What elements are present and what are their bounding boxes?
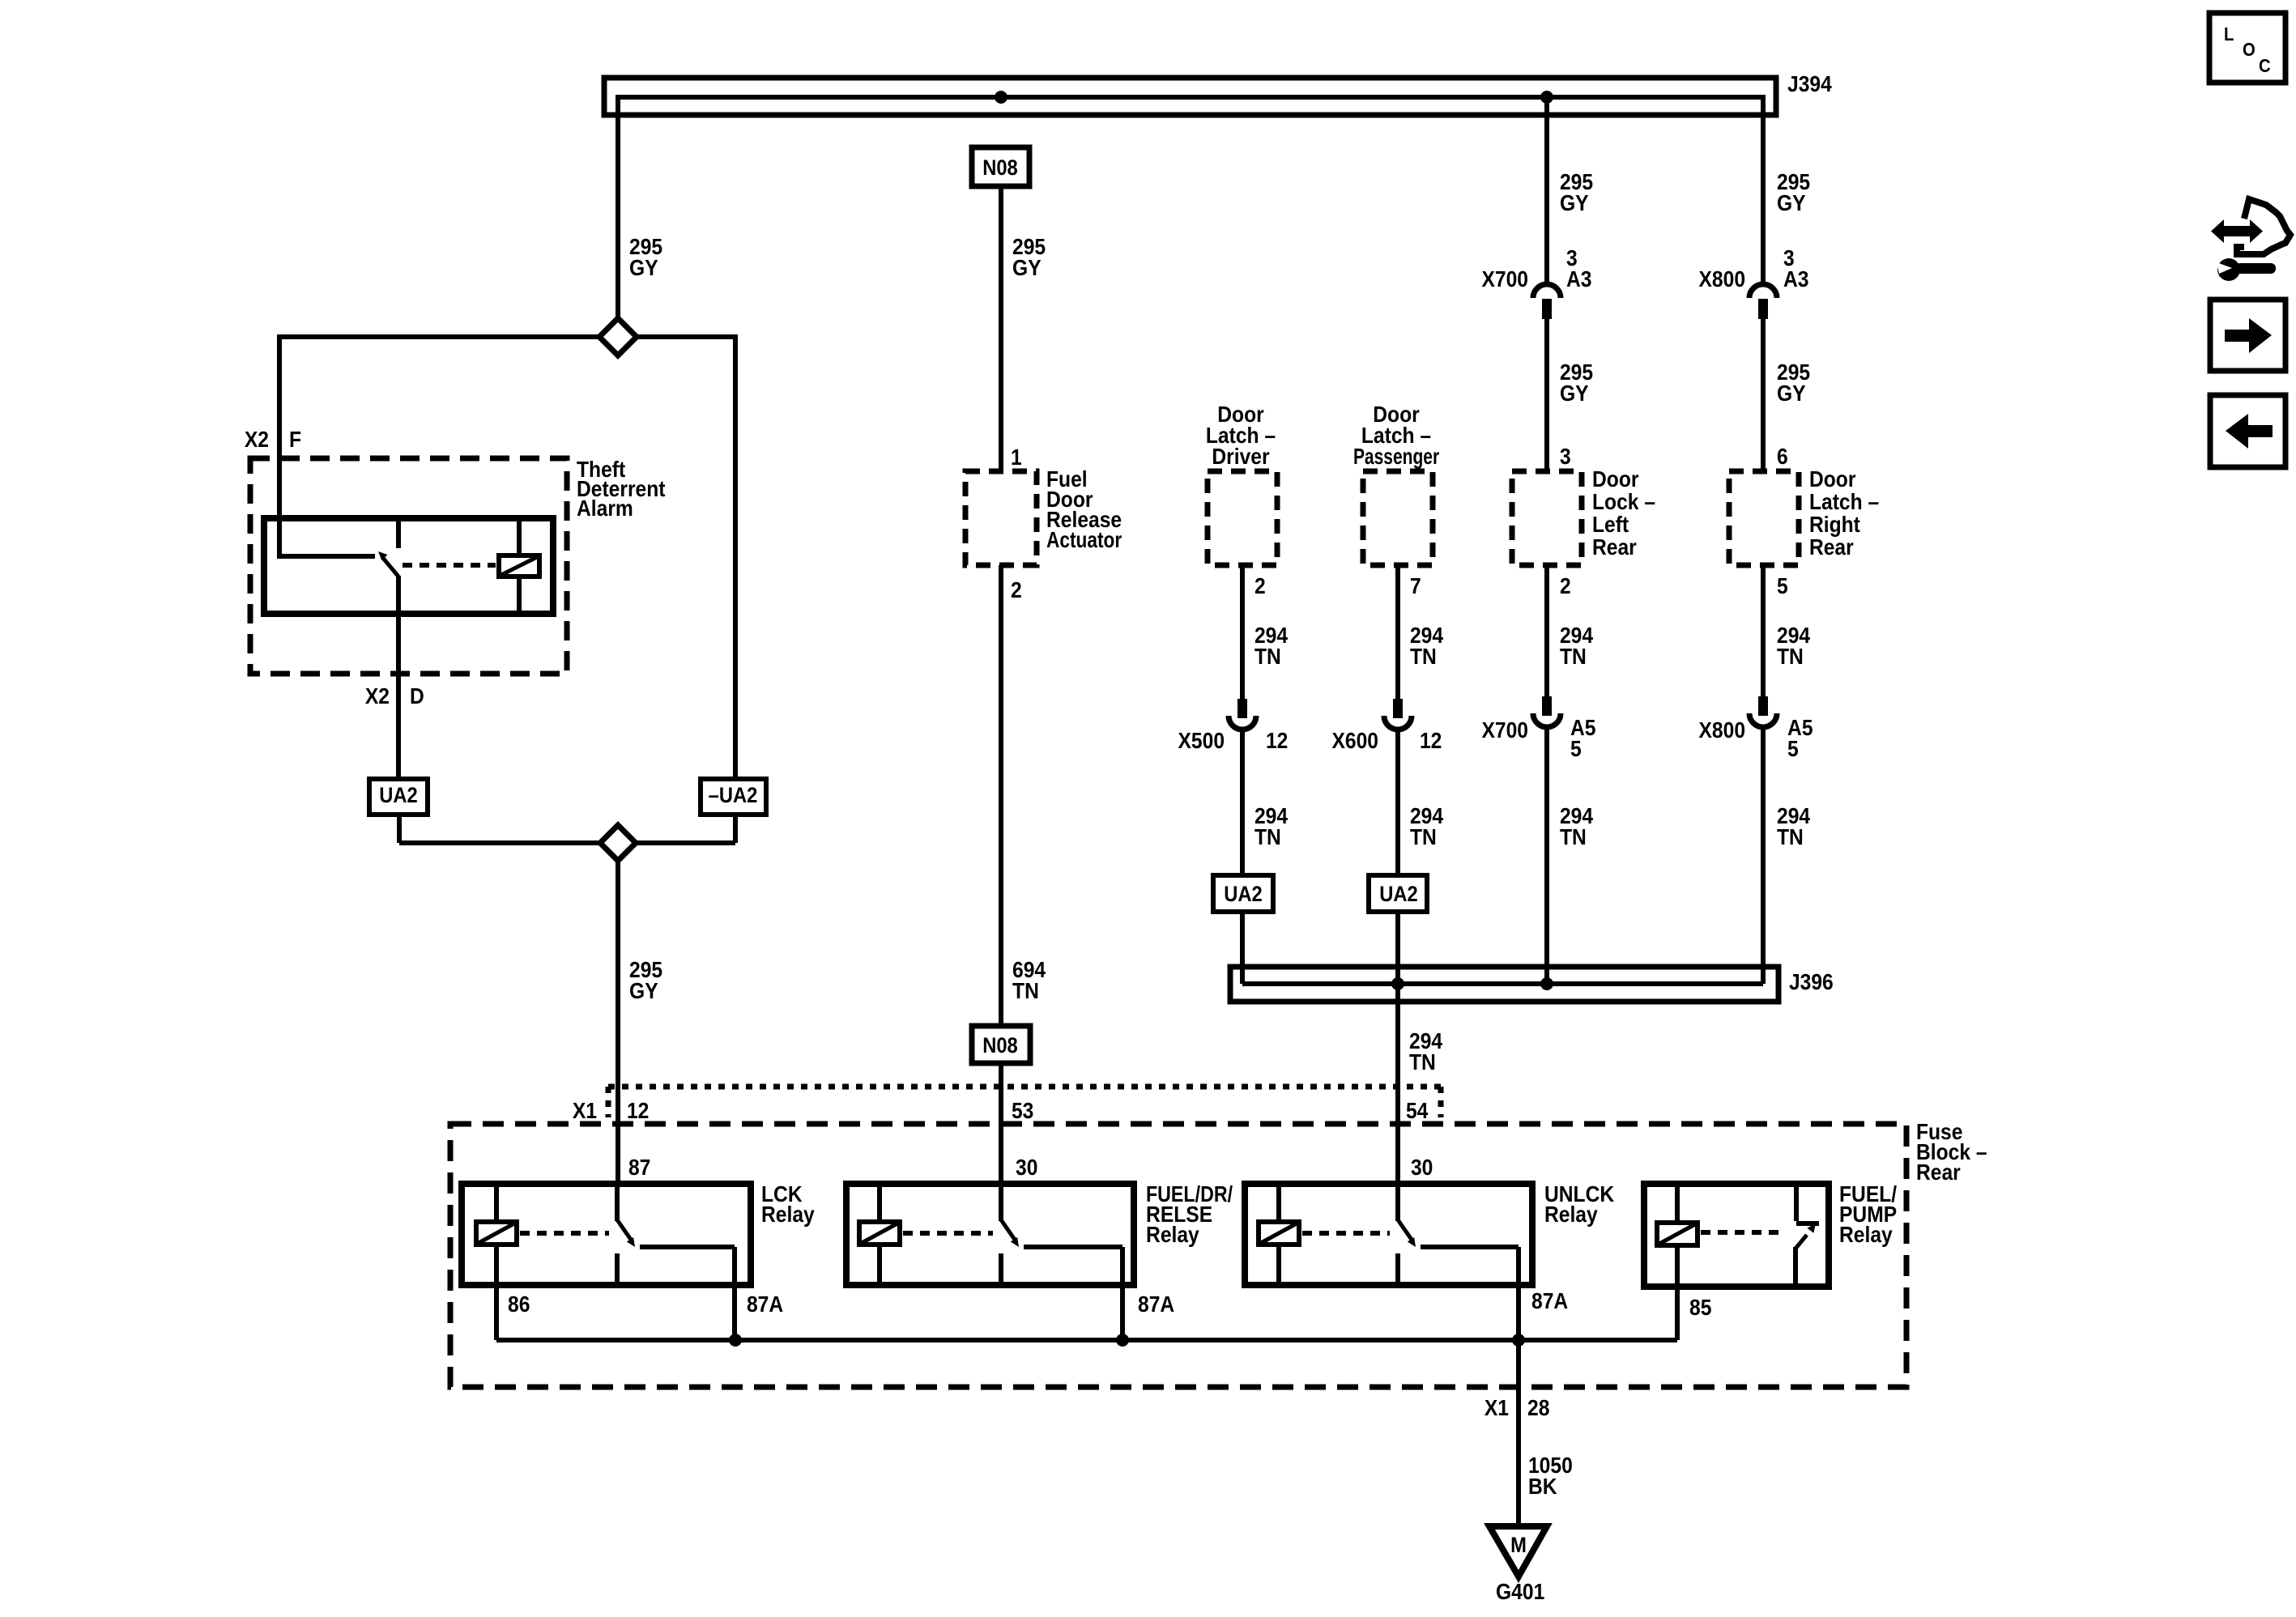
svg-text:Actuator: Actuator [1046, 528, 1122, 553]
svg-text:Passenger: Passenger [1353, 445, 1439, 470]
svg-text:5: 5 [1777, 573, 1788, 599]
svg-text:X800: X800 [1699, 717, 1746, 743]
svg-text:2: 2 [1560, 573, 1571, 599]
svg-text:TN: TN [1410, 644, 1437, 670]
svg-text:GY: GY [1560, 381, 1589, 406]
svg-text:UA2: UA2 [1224, 883, 1263, 907]
svg-text:1: 1 [1011, 445, 1022, 470]
svg-text:A3: A3 [1783, 266, 1808, 292]
svg-text:N08: N08 [982, 1034, 1018, 1058]
svg-text:2: 2 [1011, 577, 1022, 603]
svg-text:30: 30 [1411, 1155, 1433, 1181]
svg-text:87A: 87A [747, 1291, 783, 1317]
svg-text:D: D [410, 683, 424, 709]
svg-text:TN: TN [1254, 824, 1281, 850]
svg-text:53: 53 [1012, 1098, 1033, 1124]
svg-text:54: 54 [1406, 1098, 1429, 1124]
svg-text:Relay: Relay [1839, 1222, 1893, 1248]
svg-text:TN: TN [1777, 644, 1804, 670]
svg-text:Rear: Rear [1809, 534, 1854, 560]
svg-text:TN: TN [1012, 978, 1039, 1004]
svg-text:GY: GY [1777, 190, 1806, 216]
svg-text:7: 7 [1410, 573, 1421, 599]
svg-text:C: C [2259, 55, 2271, 77]
svg-text:6: 6 [1777, 444, 1788, 470]
svg-text:L: L [2224, 23, 2234, 45]
svg-text:N08: N08 [982, 156, 1018, 181]
svg-text:J396: J396 [1789, 969, 1834, 995]
svg-text:TN: TN [1560, 644, 1587, 670]
svg-text:TN: TN [1777, 824, 1804, 850]
svg-text:A3: A3 [1566, 266, 1591, 292]
svg-text:F: F [289, 427, 301, 453]
svg-text:–UA2: –UA2 [709, 784, 758, 808]
svg-text:X700: X700 [1481, 717, 1528, 743]
svg-text:GY: GY [629, 255, 658, 281]
svg-text:X2: X2 [245, 427, 269, 453]
svg-text:O: O [2243, 39, 2256, 61]
svg-text:X2: X2 [365, 683, 390, 709]
svg-text:Relay: Relay [761, 1202, 815, 1228]
svg-text:GY: GY [1560, 190, 1589, 216]
svg-text:85: 85 [1689, 1295, 1711, 1321]
svg-text:30: 30 [1016, 1155, 1037, 1181]
svg-text:5: 5 [1570, 736, 1582, 762]
svg-text:Rear: Rear [1592, 534, 1637, 560]
svg-text:Driver: Driver [1212, 444, 1269, 470]
svg-text:87A: 87A [1531, 1288, 1568, 1314]
svg-text:GY: GY [1777, 381, 1806, 406]
svg-text:GY: GY [1012, 255, 1042, 281]
svg-text:Relay: Relay [1146, 1222, 1199, 1248]
svg-text:Relay: Relay [1544, 1202, 1598, 1228]
svg-text:TN: TN [1410, 824, 1437, 850]
svg-text:UA2: UA2 [379, 784, 418, 808]
svg-text:87A: 87A [1138, 1291, 1174, 1317]
svg-text:X500: X500 [1178, 728, 1225, 754]
svg-text:TN: TN [1560, 824, 1587, 850]
svg-text:X700: X700 [1481, 266, 1528, 292]
svg-text:UA2: UA2 [1379, 883, 1418, 907]
svg-text:X1: X1 [1485, 1395, 1509, 1421]
svg-text:12: 12 [1420, 728, 1442, 754]
svg-text:2: 2 [1254, 573, 1266, 599]
svg-text:12: 12 [627, 1098, 649, 1124]
svg-text:Alarm: Alarm [577, 496, 633, 521]
svg-text:5: 5 [1787, 736, 1799, 762]
svg-text:X1: X1 [573, 1098, 597, 1124]
svg-text:86: 86 [508, 1291, 530, 1317]
svg-text:Rear: Rear [1916, 1160, 1961, 1185]
svg-text:GY: GY [629, 978, 658, 1004]
svg-text:28: 28 [1527, 1395, 1549, 1421]
svg-text:12: 12 [1266, 728, 1288, 754]
svg-text:G401: G401 [1496, 1579, 1544, 1605]
svg-text:X600: X600 [1331, 728, 1378, 754]
svg-text:87: 87 [628, 1155, 650, 1181]
svg-text:BK: BK [1528, 1474, 1557, 1500]
svg-text:TN: TN [1254, 644, 1281, 670]
svg-text:M: M [1510, 1534, 1527, 1558]
svg-text:X800: X800 [1699, 266, 1746, 292]
svg-text:J394: J394 [1787, 71, 1832, 97]
svg-text:TN: TN [1409, 1049, 1436, 1075]
svg-text:3: 3 [1560, 444, 1571, 470]
